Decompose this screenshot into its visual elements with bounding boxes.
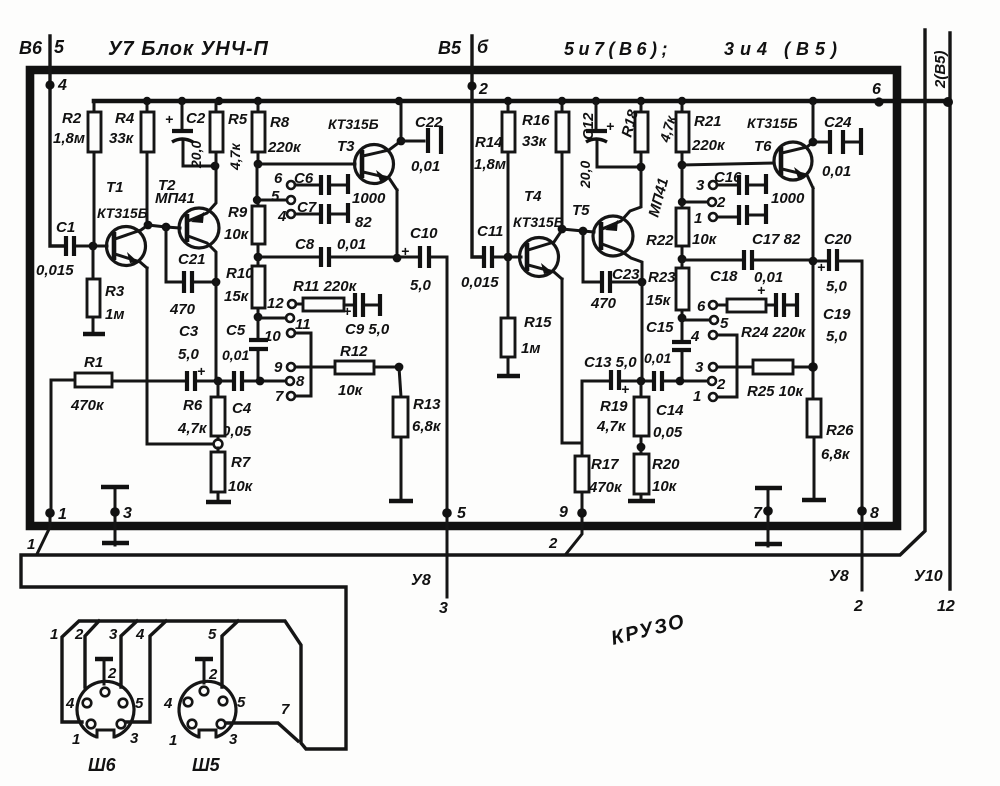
svg-text:470к: 470к [70,397,105,414]
node R25 / emitter line [808,362,818,372]
svg-text:0,01: 0,01 [411,158,440,175]
DIN connector Ш6 [65,659,144,775]
svg-text:R9: R9 [228,204,248,221]
svg-text:С19: С19 [823,306,851,323]
svg-text:7: 7 [275,388,284,405]
svg-text:У10: У10 [914,568,943,585]
pin 2 top [708,198,716,206]
svg-text:10к: 10к [224,226,250,243]
svg-text:5: 5 [135,695,144,712]
svg-text:4: 4 [57,77,67,94]
svg-text:1: 1 [50,626,58,643]
pin 6 [287,181,295,189]
svg-text:6: 6 [274,170,283,187]
svg-text:3: 3 [123,505,132,522]
wire T3 base [258,163,355,166]
top supply rail (net 6) [94,99,948,104]
svg-text:7: 7 [281,701,290,718]
node base T4 [504,253,513,262]
svg-text:В5: В5 [438,38,462,58]
svg-text:С5: С5 [226,322,246,339]
svg-text:КТ315Б: КТ315Б [97,205,148,221]
svg-text:КТ315Б: КТ315Б [747,115,798,131]
svg-text:R6: R6 [183,397,203,414]
svg-text:1,8м: 1,8м [474,156,506,173]
resistor R2 [53,101,101,245]
svg-text:С11: С11 [477,223,503,240]
svg-text:R11 220к: R11 220к [293,278,358,295]
svg-text:5: 5 [720,315,729,332]
svg-text:У8: У8 [829,568,849,585]
resistor R18 [618,101,679,167]
svg-text:МП41: МП41 [155,190,195,207]
svg-text:1м: 1м [105,306,124,323]
resistor R12 [295,343,399,399]
wire C13 left vertical [581,381,584,443]
svg-text:+: + [401,243,409,259]
svg-text:2: 2 [853,598,863,615]
svg-text:10к: 10к [228,478,254,495]
pin 10 [287,329,295,337]
bracket pin2 to base [682,165,708,202]
resistor R13 [389,367,442,501]
resistor R1 [51,354,112,513]
svg-text:33к: 33к [522,133,548,150]
svg-text:8: 8 [870,505,879,522]
svg-text:1: 1 [693,388,701,405]
svg-text:С4: С4 [232,400,252,417]
node T1 collector [144,221,153,230]
svg-text:5: 5 [208,626,217,643]
node T2 collector / C21 [212,278,221,287]
resistor R22 [646,202,718,259]
DIN connector Ш5 [163,659,246,775]
wire C13/C14 row [582,380,609,383]
svg-text:С13 5,0: С13 5,0 [584,354,637,371]
capacitor C23 [583,231,640,312]
capacitor C14 [653,371,708,441]
svg-text:5: 5 [237,694,246,711]
resistor R16 [522,101,569,229]
svg-text:5: 5 [271,188,280,205]
svg-text:Ш6: Ш6 [88,755,117,775]
svg-text:0,01: 0,01 [222,347,249,363]
svg-text:33к: 33к [109,130,135,147]
pin 7 [287,392,295,400]
main block border У7 [30,70,897,526]
svg-text:R12: R12 [340,343,368,360]
bracket pins 4-1 [717,335,737,397]
svg-text:R10: R10 [226,265,254,282]
svg-text:Т4: Т4 [524,188,542,205]
svg-text:0,05: 0,05 [653,424,683,441]
wire Ш6 line 4 [126,621,166,722]
svg-text:20,0: 20,0 [577,161,593,189]
svg-text:С22: С22 [415,114,443,131]
resistor R14 [474,101,515,257]
wire input y381 [112,380,185,383]
svg-text:4,7к: 4,7к [177,420,208,437]
svg-text:3: 3 [130,730,139,747]
pin 2 [708,377,716,385]
svg-text:1000: 1000 [352,190,386,207]
svg-text:С15: С15 [646,319,674,336]
svg-text:5: 5 [54,37,65,57]
svg-text:R24 220к: R24 220к [741,324,807,341]
node В5 input line (pin 6) [472,36,482,257]
svg-text:С23: С23 [612,266,640,283]
pin 5 [710,316,718,324]
node R9/R10/C8 [254,253,263,262]
svg-text:R13: R13 [413,396,441,413]
svg-text:2: 2 [716,194,726,211]
pin 4 [709,331,717,339]
resistor R4 [109,101,154,224]
svg-text:1м: 1м [521,340,540,357]
capacitor C6 [294,170,386,207]
resistor R11 [293,278,358,311]
node R21 bottom / T6 base [678,161,687,170]
svg-text:220к: 220к [267,139,302,156]
rail junction dots left [143,97,151,105]
svg-text:5,0: 5,0 [826,328,848,345]
node 9 to chassis bus (pin 2) [566,513,582,554]
capacitor C21 [166,227,214,318]
svg-text:5,0: 5,0 [410,277,432,294]
capacitor C18 [682,250,811,286]
svg-text:5,0: 5,0 [826,278,848,295]
svg-text:8: 8 [296,373,305,390]
svg-text:С12: С12 [580,112,597,140]
svg-text:4,7к: 4,7к [227,143,243,171]
svg-text:С10: С10 [410,225,438,242]
svg-text:6,8к: 6,8к [412,418,442,435]
pin 9 [287,363,295,371]
node В6 input line (pin 5) [50,36,64,246]
svg-text:+: + [343,303,351,319]
svg-text:С20: С20 [824,231,852,248]
svg-text:4: 4 [135,626,145,643]
wire T6 collector to rail [812,101,815,142]
svg-text:R8: R8 [270,114,290,131]
node C13/C14/T5 collector [637,377,646,386]
svg-text:С1: С1 [56,219,75,236]
capacitor C15 [644,318,691,378]
svg-text:3: 3 [229,731,238,748]
pin 11 [286,314,294,322]
capacitor C24 [813,114,861,180]
svg-text:2: 2 [548,535,558,552]
capacitor C16 [714,169,805,207]
svg-text:R7: R7 [231,454,251,471]
capacitor C4 [222,371,286,440]
capacitor C7 [295,199,372,231]
svg-text:С2: С2 [186,110,206,127]
node 5 line to У8 pin 3 [446,257,449,597]
svg-text:0,01: 0,01 [822,163,851,180]
capacitor C12 (electrolytic 20,0) [577,101,638,189]
svg-text:12: 12 [267,295,284,312]
svg-text:У8: У8 [411,572,431,589]
wire node to pin 5 [682,319,710,322]
svg-text:2: 2 [716,376,726,393]
svg-text:С14: С14 [656,402,684,419]
rail junction dots right [504,97,512,105]
svg-text:+: + [197,363,205,379]
svg-text:1: 1 [58,506,67,523]
node C8 / emitter line [393,254,402,263]
svg-text:Т5: Т5 [572,202,590,219]
svg-text:7: 7 [753,505,763,522]
svg-text:КТ315Б: КТ315Б [328,116,379,132]
svg-text:С6: С6 [294,170,314,187]
node C18 / emitter line [809,257,818,266]
pin 3 top [709,181,717,189]
node emitter T2 / R5 / C2 [211,162,220,171]
node 2 [467,81,476,90]
svg-text:3: 3 [439,600,448,617]
svg-text:R19: R19 [600,398,628,415]
svg-text:4: 4 [65,695,75,712]
node C23 tap [579,227,588,236]
pin 4 [287,210,295,218]
svg-text:Т1: Т1 [106,179,124,196]
svg-text:2(В5): 2(В5) [932,50,949,89]
resistor R10 [224,257,265,317]
svg-text:R2: R2 [62,110,82,127]
svg-text:2: 2 [107,665,117,682]
resistor R20 [628,447,680,501]
svg-text:2: 2 [74,626,84,643]
svg-text:Т3: Т3 [337,138,355,155]
svg-text:С21: С21 [178,251,206,268]
node R10 bottom [254,313,263,322]
wire Ш6 line 3 [121,621,137,687]
node T4 collector [558,225,567,234]
svg-text:3и4 (В5): 3и4 (В5) [724,39,843,59]
chassis I-beam at node 3 [114,487,117,545]
transistor T5 МП41 [572,167,672,282]
pin 6 [709,301,717,309]
resistor R26 [802,399,854,500]
wire Ш5 pin3 line 7 [226,723,298,741]
resistor R8 [252,101,302,164]
svg-text:Т6: Т6 [754,138,772,155]
node C14 / C15 / pin2 [676,377,685,386]
wire У10 net 12 vertical right [948,33,951,589]
transistor T3 КТ315Б [328,116,401,190]
svg-text:4: 4 [690,328,700,345]
resistor R15 [497,257,552,376]
svg-text:1000: 1000 [771,190,805,207]
svg-text:10к: 10к [338,382,364,399]
node R12 / R13 [395,363,404,372]
node 4 [45,80,54,89]
capacitor C1 [36,219,107,279]
svg-text:6,8к: 6,8к [821,446,851,463]
node 6 [874,97,883,106]
svg-text:1,8м: 1,8м [53,130,85,147]
wire Ш5 line 5 [222,621,238,687]
wire T6 base [682,163,774,165]
svg-text:У7 Блок УНЧ-П: У7 Блок УНЧ-П [108,38,269,60]
capacitor C2 (electrolytic 20,0) [165,101,213,169]
svg-text:С8: С8 [295,236,315,253]
svg-text:1: 1 [27,536,35,553]
wire T1 emitter feedback [147,268,213,444]
pin 5 [287,196,295,204]
svg-text:6: 6 [697,298,706,315]
capacitor C19 [757,282,797,317]
node dot rail to net 12 [943,97,953,107]
capacitor C8 [258,236,395,267]
pin 8 [286,377,294,385]
wire T5 collector down [641,282,644,381]
svg-text:R20: R20 [652,456,680,473]
resistor R19 [596,381,649,447]
node R8 bottom / T3 base [254,160,263,169]
node C4 / C5 / pin8 [256,377,265,386]
bracket pin5 to base [257,164,287,200]
wire collector T1 to base T2 [148,225,180,228]
resistor R25 [717,360,813,400]
svg-text:R4: R4 [115,110,135,127]
svg-text:4,7к: 4,7к [596,418,627,435]
svg-text:0,01: 0,01 [644,350,671,366]
svg-text:б: б [477,37,489,57]
resistor R7 [206,448,254,502]
svg-text:12: 12 [937,598,955,615]
svg-text:5и7(В6);: 5и7(В6); [564,39,672,59]
wire node to pin 11 [258,317,286,320]
svg-text:R14: R14 [475,134,503,151]
wire Ш6 line 2 [85,621,99,687]
svg-text:15к: 15к [224,288,250,305]
svg-text:С24: С24 [824,114,852,131]
svg-text:4: 4 [163,695,173,712]
wire T4 emitter feedback [562,279,582,443]
svg-text:470: 470 [590,295,617,312]
svg-text:15к: 15к [646,292,672,309]
svg-text:9: 9 [559,504,568,521]
node C3/C4/T2 collector [214,377,223,386]
svg-text:10к: 10к [692,231,718,248]
svg-text:В6: В6 [19,38,43,58]
wire T2 collector down [215,282,218,381]
svg-text:С18: С18 [710,268,738,285]
svg-text:1: 1 [72,731,80,748]
svg-text:R21: R21 [694,113,722,130]
node T5 collector / C23 [638,278,647,287]
svg-text:9: 9 [274,359,283,376]
svg-text:С17 82: С17 82 [752,231,801,248]
svg-text:+: + [165,111,173,127]
svg-text:3: 3 [695,359,704,376]
capacitor C11 [461,223,521,291]
svg-text:+: + [621,381,629,397]
node 8 line to У8 pin 2 [861,261,864,590]
svg-text:5,0: 5,0 [178,346,200,363]
svg-text:R25 10к: R25 10к [747,383,804,400]
svg-text:0,015: 0,015 [461,274,499,291]
svg-text:470: 470 [169,301,196,318]
svg-text:10к: 10к [652,478,678,495]
svg-text:5: 5 [457,505,467,522]
svg-text:0,05: 0,05 [222,423,252,440]
svg-text:3: 3 [696,177,705,194]
transistor T1 КТ315Б [97,179,148,268]
resistor R9 [224,200,265,257]
wire collector T4 to base T5 [562,229,594,232]
svg-text:4: 4 [277,208,287,225]
capacitor C17 [717,204,801,248]
node R23 bottom [678,314,687,323]
svg-text:11: 11 [295,316,311,333]
svg-text:10: 10 [264,328,281,345]
svg-text:Ш5: Ш5 [192,755,221,775]
transistor T4 КТ315Б [513,188,564,279]
pin 3 [709,363,717,371]
svg-text:2: 2 [208,666,218,683]
node R22/R23/C18 [678,255,687,264]
svg-text:1: 1 [169,732,177,749]
resistor R5 [210,101,248,171]
resistor R23 [646,259,689,318]
svg-text:+: + [817,259,825,275]
capacitor C22 [401,114,443,175]
capacitor C9 [343,293,390,338]
transistor T2 МП41 [155,167,219,282]
svg-text:R3: R3 [105,283,125,300]
svg-text:0,015: 0,015 [36,262,74,279]
svg-text:+: + [606,118,614,134]
svg-text:R1: R1 [84,354,103,371]
pin 1 top [709,213,717,221]
transistor T6 КТ315Б [747,115,813,188]
svg-text:82: 82 [355,214,372,231]
svg-text:R15: R15 [524,314,552,331]
capacitor C10 (electrolytic) [397,225,447,294]
resistor R24 [717,299,807,341]
capacitor C5 [222,317,268,378]
svg-text:3: 3 [109,626,118,643]
resistor R17 [575,443,623,513]
svg-text:1: 1 [694,210,702,227]
svg-text:6: 6 [872,81,881,98]
svg-text:2: 2 [478,81,488,98]
svg-text:С9 5,0: С9 5,0 [345,321,390,338]
svg-text:0,01: 0,01 [337,236,366,253]
resistor R3 [83,246,125,334]
node emitter T5 / R18 / C12 [637,163,646,172]
svg-text:С3: С3 [179,323,199,340]
svg-text:R23: R23 [648,269,676,286]
node base T1 [89,242,98,251]
svg-text:220к: 220к [691,137,726,154]
resistor R6 [177,381,225,440]
pin 1 [709,393,717,401]
pin 12 [288,300,296,308]
svg-text:КТ315Б: КТ315Б [513,214,564,230]
svg-text:+: + [757,282,765,298]
svg-text:R17: R17 [591,456,619,473]
junction circle R6/R7 [214,440,223,449]
chassis I-beam at node 7 [767,488,770,546]
svg-text:R26: R26 [826,422,854,439]
svg-text:20,0: 20,0 [188,141,204,169]
bracket pins 10-7 [295,333,311,396]
capacitor C20 (electrolytic) [813,231,862,295]
